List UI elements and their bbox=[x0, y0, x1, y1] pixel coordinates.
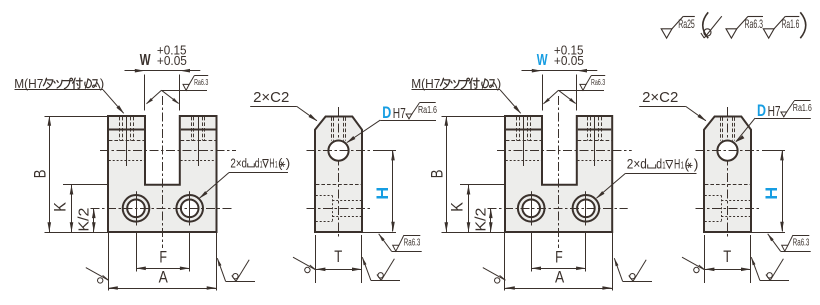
svg-text:): ) bbox=[694, 155, 699, 171]
svg-text:W: W bbox=[140, 52, 151, 69]
svg-text:+0.05: +0.05 bbox=[554, 54, 584, 68]
svg-text:+0.05: +0.05 bbox=[157, 54, 187, 68]
svg-text:1: 1 bbox=[662, 160, 666, 171]
svg-text:d: d bbox=[656, 155, 662, 171]
svg-text:Ra1.6: Ra1.6 bbox=[418, 105, 437, 116]
svg-text:H: H bbox=[674, 155, 680, 171]
svg-text:A: A bbox=[555, 267, 565, 286]
svg-text:(: ( bbox=[278, 155, 283, 170]
svg-text:K: K bbox=[50, 202, 69, 212]
svg-text:A: A bbox=[159, 267, 169, 286]
svg-text:Ra1.6: Ra1.6 bbox=[793, 103, 812, 114]
svg-text:F: F bbox=[159, 247, 167, 266]
svg-text:H7: H7 bbox=[768, 104, 781, 120]
svg-text:K/2: K/2 bbox=[472, 208, 489, 232]
svg-text:K: K bbox=[447, 202, 466, 212]
svg-text:B: B bbox=[31, 170, 50, 179]
svg-text:W: W bbox=[537, 52, 548, 69]
svg-text:2×C2: 2×C2 bbox=[253, 90, 289, 106]
svg-text:Ra6.3: Ra6.3 bbox=[404, 238, 421, 249]
svg-text:F: F bbox=[555, 247, 563, 266]
svg-text:T: T bbox=[723, 247, 731, 266]
svg-text:H: H bbox=[373, 187, 392, 200]
svg-text:Ra1.6: Ra1.6 bbox=[782, 17, 800, 31]
svg-text:H: H bbox=[762, 187, 781, 200]
svg-text:Ra6.3: Ra6.3 bbox=[194, 78, 209, 87]
svg-text:H7: H7 bbox=[393, 106, 406, 122]
svg-text:B: B bbox=[428, 170, 447, 179]
svg-text:2×d: 2×d bbox=[627, 155, 647, 171]
svg-text:T: T bbox=[334, 247, 342, 266]
svg-text:D: D bbox=[757, 102, 766, 120]
svg-text:D: D bbox=[382, 104, 391, 122]
svg-text:Ra6.3: Ra6.3 bbox=[591, 78, 606, 87]
svg-text:2×C2: 2×C2 bbox=[642, 90, 678, 106]
svg-text:Ra6.3: Ra6.3 bbox=[745, 17, 764, 31]
svg-text:Ra6.3: Ra6.3 bbox=[793, 238, 810, 249]
svg-text:Ra25: Ra25 bbox=[678, 17, 695, 31]
svg-text:): ) bbox=[286, 155, 290, 170]
svg-text:2×d: 2×d bbox=[230, 155, 247, 170]
svg-text:): ) bbox=[497, 76, 501, 91]
svg-text:1: 1 bbox=[260, 159, 263, 170]
svg-text:M(H7: M(H7 bbox=[411, 76, 440, 91]
svg-text:H: H bbox=[269, 155, 274, 170]
svg-text:M(H7: M(H7 bbox=[14, 76, 43, 91]
svg-text:K/2: K/2 bbox=[75, 208, 92, 232]
svg-text:): ) bbox=[100, 76, 104, 91]
